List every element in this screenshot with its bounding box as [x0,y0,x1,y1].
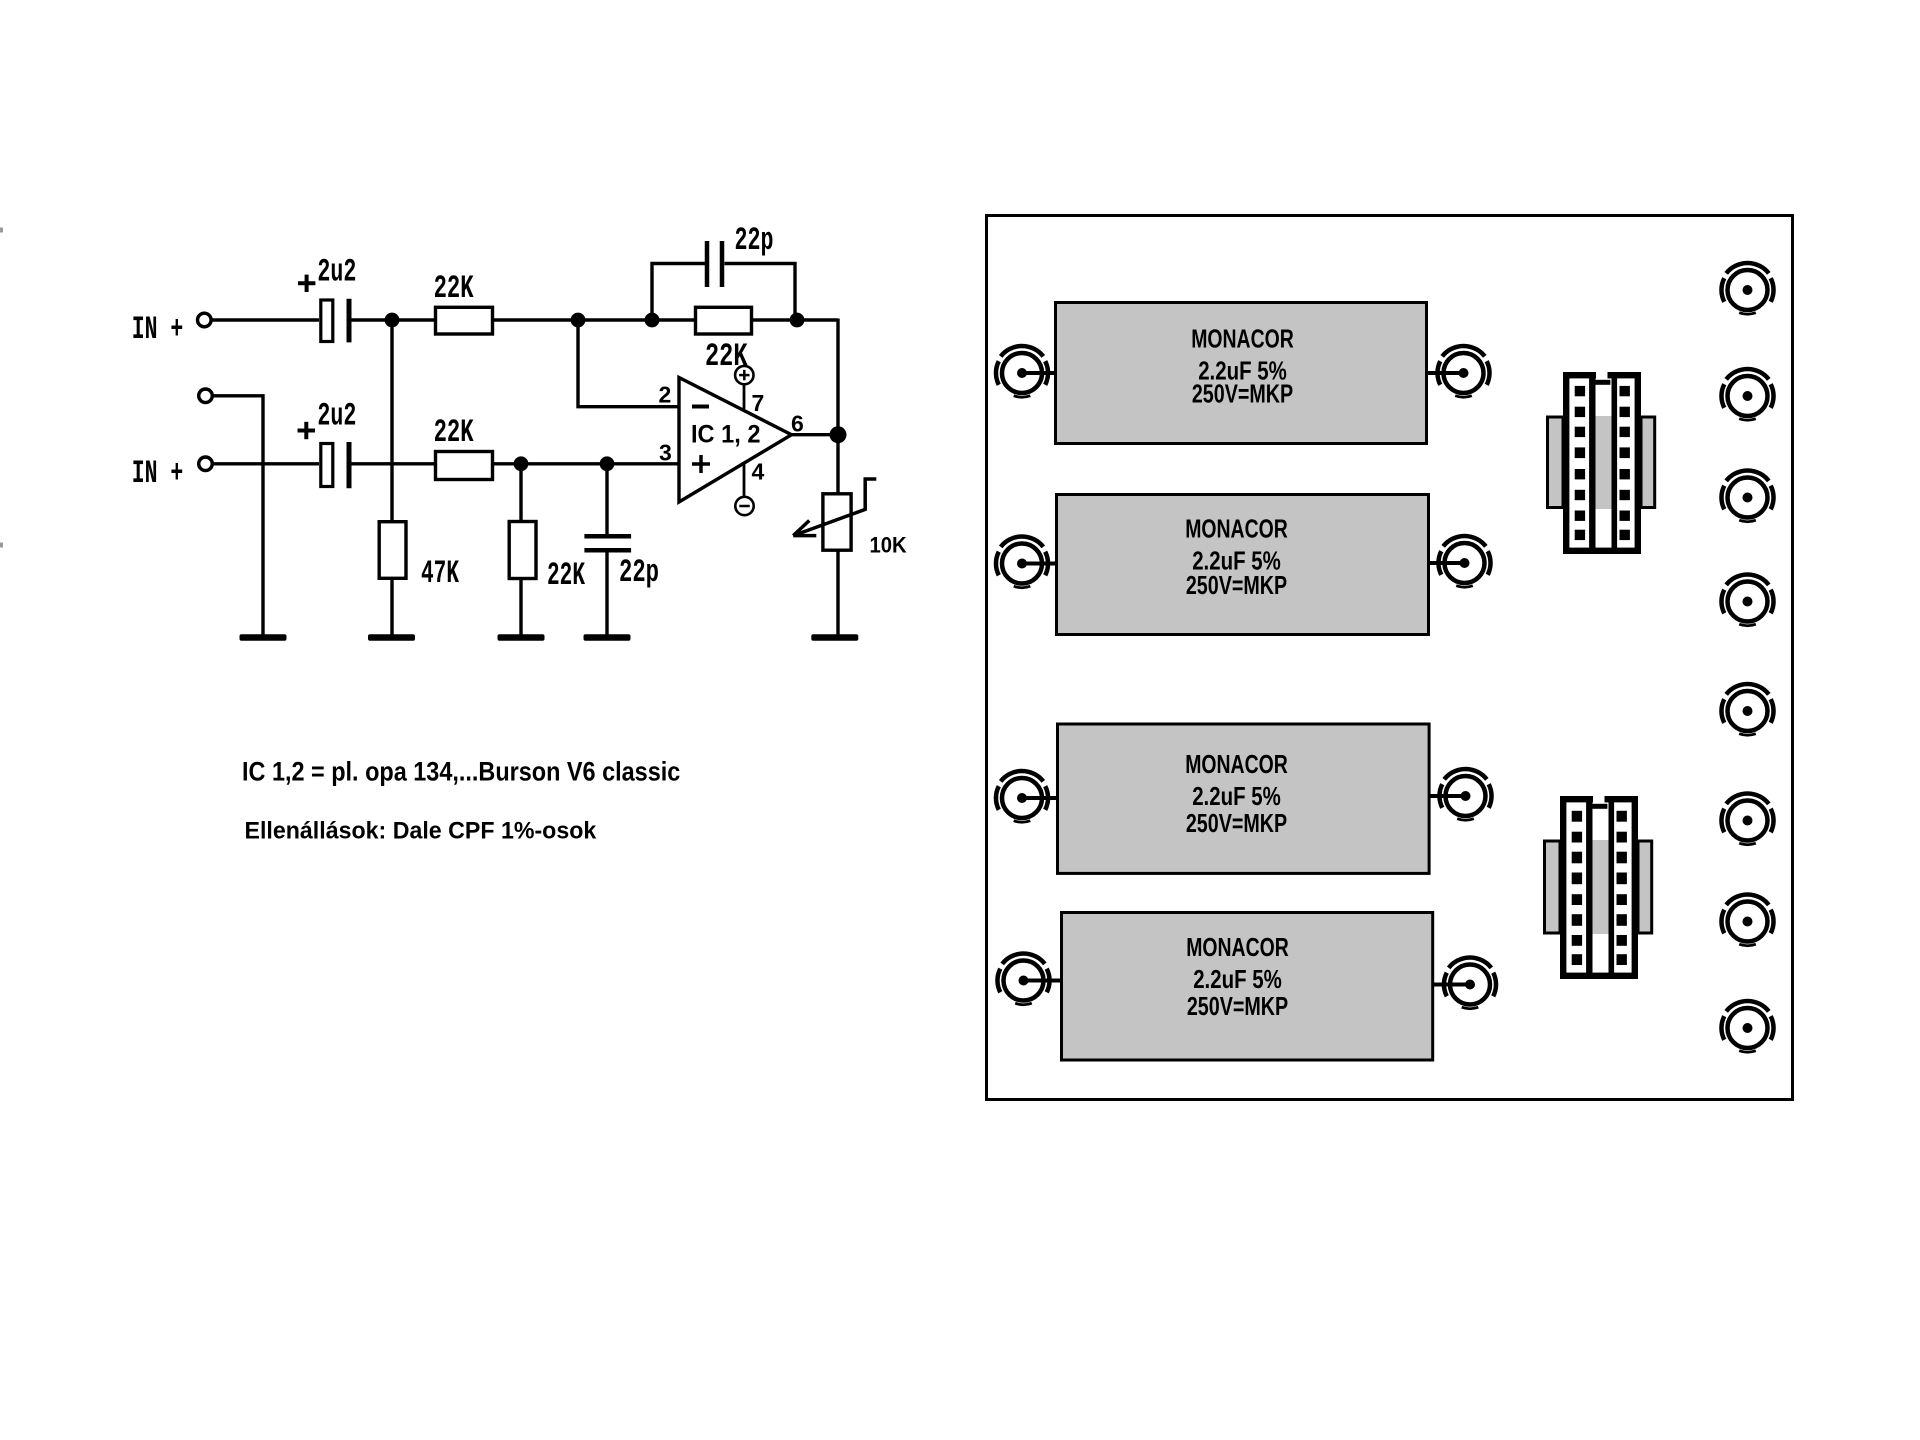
wire IN1 to C1 [212,318,320,321]
solder pad column 6 [1721,793,1773,844]
wire pot to ground [836,550,839,634]
edge speck 1 [0,228,3,233]
solder pad C6 right [1438,536,1490,587]
wire inverting input (pin 2) [578,320,678,407]
svg-text:22K: 22K [434,414,475,451]
wire R1 to R2 [493,318,696,321]
svg-text:Ellenállások: Dale CPF 1%-osok: Ellenállások: Dale CPF 1%-osok [245,818,597,845]
film capacitor C5 body [1056,303,1427,444]
connector J2 left wing [1545,841,1561,933]
wire output to pot [836,435,839,494]
solder pad column 2 [1721,369,1773,420]
label C7 text [1185,749,1288,838]
wire C4 branch [605,464,608,534]
wire C2 to R3 [352,462,436,465]
node IN2 terminal [199,457,213,471]
wire op-amp output [792,433,839,436]
svg-text:IC 1, 2: IC 1, 2 [691,420,761,448]
junction dot F [514,456,529,471]
ground symbol (R5) [498,634,545,641]
svg-text:4: 4 [752,459,765,485]
wire R4 to ground [390,578,393,634]
svg-text:IN +: IN + [132,455,184,492]
svg-text:3: 3 [659,440,672,466]
lead C8 right [1434,983,1470,987]
connector J2 right wing [1638,841,1652,933]
junction dot A [385,313,400,328]
wire IN2 upper to ground rail [213,396,263,635]
svg-text:250V=MKP: 250V=MKP [1192,378,1293,408]
connector J2 pins left column [1572,811,1582,965]
V- supply terminal [735,497,753,515]
wire C1 to R1 [352,318,436,321]
junction dot E (output) [830,426,847,443]
node IN2 upper terminal [199,389,213,403]
connector J1 body [1563,371,1641,555]
film capacitor C6 body [1057,495,1429,635]
wire R5 to ground [519,579,522,635]
op-amp U1 triangle [679,378,792,503]
junction dot D [790,313,805,328]
label + polarity C1 [298,275,315,292]
lead C7 left [1022,796,1057,800]
connector J1 right wing [1641,417,1655,508]
solder pad C5 right [1437,346,1489,397]
lead C8 left [1024,979,1062,983]
lead C5 left [1022,371,1055,375]
svg-text:47K: 47K [421,555,460,592]
capacitor C1 2u2 [321,299,349,343]
edge speck 2 [0,543,3,548]
resistor R2 22K feedback [696,307,752,334]
PCB board outline [987,216,1793,1100]
svg-text:22K: 22K [434,270,475,307]
solder pad C7 right [1439,769,1491,820]
wire V+ to op-amp [743,385,746,410]
svg-text:MONACOR: MONACOR [1185,514,1288,544]
svg-text:10K: 10K [870,533,908,558]
node IN1 terminal [198,313,212,327]
svg-text:2: 2 [659,381,672,407]
svg-text:2u2: 2u2 [317,397,356,434]
potentiometer P1 wiper arrow [793,479,876,536]
svg-text:MONACOR: MONACOR [1191,324,1294,354]
solder pad column 3 [1721,470,1773,521]
resistor R3 22K [436,452,493,480]
svg-text:IN +: IN + [132,311,184,348]
junction dot G [600,456,615,471]
solder pad column 7 [1721,894,1773,945]
svg-text:22K: 22K [547,557,586,594]
lead C6 left [1022,562,1056,566]
film capacitor C7 body [1058,724,1430,873]
svg-text:IC 1,2 = pl. opa 134,...Burson: IC 1,2 = pl. opa 134,...Burson V6 classi… [242,756,680,786]
ground symbol (output) [811,634,858,641]
wire R2 to output node [752,318,839,321]
wire IN2 to C2 [213,462,319,465]
resistor R1 22K [436,307,493,334]
ground symbol (C4) [584,634,631,641]
svg-text:7: 7 [752,390,765,416]
lead C7 right [1430,794,1466,798]
wire C4 to ground [605,552,608,635]
capacitor C3 22p feedback [707,241,722,287]
svg-text:2.2uF 5%: 2.2uF 5% [1193,964,1282,994]
wire R3 to pin 3 [493,462,678,465]
op-amp minus sign [692,405,709,409]
op-amp plus sign [692,455,710,473]
solder pad column 4 [1721,574,1773,625]
lead C6 right [1430,561,1465,565]
solder pad C6 left [996,536,1048,587]
svg-text:22p: 22p [619,554,659,591]
wire R5 branch [519,464,522,522]
ground symbol (input return) [240,634,287,641]
solder pad column 1 [1721,263,1773,314]
ground symbol (R4) [368,634,415,641]
resistor R5 22K [509,522,536,579]
label C6 text [1185,514,1288,600]
potentiometer P1 10K body [823,494,851,550]
wire output node down [836,319,839,435]
wire op-amp to V- [743,463,746,497]
junction dot B [571,313,586,328]
junction dot C [645,313,660,328]
solder pad column 5 [1721,684,1773,735]
svg-text:2.2uF 5%: 2.2uF 5% [1192,781,1281,811]
V+ supply terminal [735,366,753,384]
resistor R4 47K [379,522,406,579]
capacitor C2 2u2 [321,442,349,488]
svg-text:MONACOR: MONACOR [1185,749,1288,779]
svg-text:6: 6 [791,411,804,437]
wire 47K branch [390,320,393,522]
connector J1 left wing [1548,417,1564,508]
svg-text:22p: 22p [735,222,774,259]
solder pad C7 left [996,771,1048,822]
wire feedback branch right [725,264,796,321]
solder pad C8 left [997,953,1049,1004]
svg-text:250V=MKP: 250V=MKP [1187,991,1288,1021]
connector J2 pins right column [1617,811,1627,965]
connector J1 pins left column [1575,386,1585,540]
wire feedback branch left [652,264,705,321]
label C8 text [1186,932,1289,1021]
solder pad column 8 [1721,1001,1773,1052]
svg-text:250V=MKP: 250V=MKP [1186,570,1287,600]
svg-text:250V=MKP: 250V=MKP [1186,808,1287,838]
capacitor C4 22p [584,536,631,550]
label C5 text [1191,324,1294,409]
label + polarity C2 [298,422,316,439]
svg-text:2u2: 2u2 [317,253,356,290]
film capacitor C8 body [1062,913,1433,1061]
connector J1 pins right column [1620,386,1630,540]
svg-text:MONACOR: MONACOR [1186,932,1289,962]
lead C5 right [1428,371,1464,375]
connector J2 body [1560,795,1638,980]
solder pad C8 right [1444,957,1496,1008]
solder pad C5 left [996,346,1048,397]
